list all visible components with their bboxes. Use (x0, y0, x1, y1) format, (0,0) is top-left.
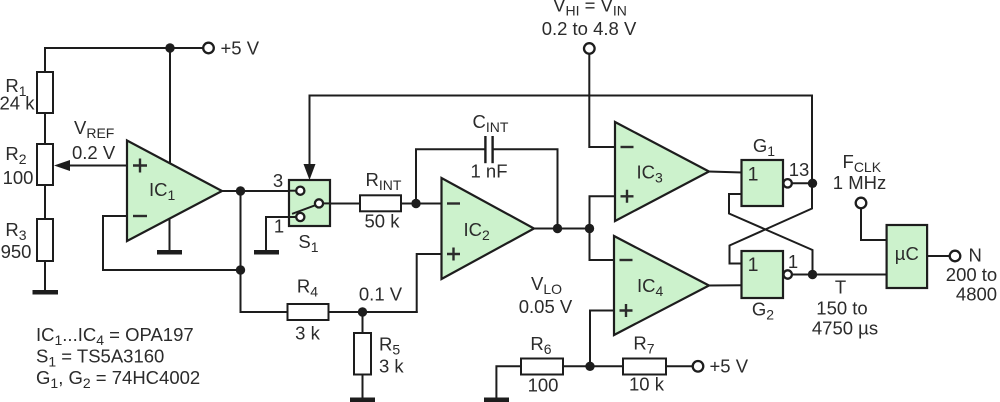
wire G1 output (792, 182, 813, 184)
svg-text:IC1...IC4 = OPA197: IC1...IC4 = OPA197 (36, 324, 194, 348)
wire divider top (44, 48, 46, 72)
svg-text:3 k: 3 k (295, 323, 320, 344)
svg-text:S1: S1 (298, 231, 318, 255)
node integrator input (411, 199, 420, 208)
wire comparator input vertical (590, 229, 615, 261)
wire IC3 output (709, 172, 742, 173)
op-amp IC2 (442, 178, 535, 279)
gate G2 (742, 251, 792, 323)
wire +5V top rail (45, 47, 202, 49)
wire R7 to +5V (666, 365, 693, 367)
wire IC2 output (534, 228, 590, 230)
svg-text:R6: R6 (530, 333, 551, 357)
gate G1 (742, 135, 792, 206)
wire G2 output (792, 274, 813, 276)
wire G1 output to G2 input (730, 183, 813, 263)
svg-text:150 to: 150 to (816, 298, 867, 319)
svg-text:1: 1 (748, 254, 759, 276)
svg-text:4800: 4800 (956, 284, 997, 305)
wire R2-R3 (44, 185, 46, 219)
wire rail to G1 output (811, 96, 813, 184)
resistor R5 (354, 312, 404, 377)
pin 1 label G2 (788, 251, 798, 272)
terminal +5V top (203, 38, 260, 59)
node G2 output (808, 270, 817, 279)
ground R5 (350, 398, 375, 402)
wire R1-R2 (44, 113, 46, 144)
svg-text:1: 1 (274, 216, 284, 237)
pin 13 label (789, 159, 810, 180)
svg-text:0.1 V: 0.1 V (359, 284, 403, 305)
wire T to uC (813, 274, 887, 276)
wire RINT to IC2 (401, 203, 442, 205)
wire CINT right (494, 149, 558, 228)
wire S1 control drop (304, 96, 316, 181)
svg-text:1: 1 (748, 164, 759, 186)
svg-text:50 k: 50 k (365, 211, 401, 232)
svg-text:0.05 V: 0.05 V (519, 296, 573, 317)
svg-text:µC: µC (895, 243, 919, 264)
node IC1 output (236, 186, 245, 195)
wire R6 to R7 (563, 365, 623, 367)
svg-text:0.2 V: 0.2 V (72, 142, 116, 163)
svg-text:100: 100 (3, 167, 34, 188)
node 0.1V (358, 284, 403, 317)
wire control rail (310, 95, 813, 97)
terminal VHI input (542, 0, 637, 54)
svg-text:R4: R4 (297, 276, 318, 300)
svg-text:3: 3 (273, 170, 283, 191)
node CINT return (553, 224, 562, 233)
svg-text:24 k: 24 k (0, 93, 35, 114)
ground S1 (254, 250, 279, 255)
svg-text:S1 = TS5A3160: S1 = TS5A3160 (36, 346, 164, 370)
wire IC1 output (222, 190, 289, 192)
node comparator input (585, 224, 594, 233)
svg-text:1 nF: 1 nF (470, 161, 507, 182)
ground R6 (484, 366, 521, 402)
svg-text:1 MHz: 1 MHz (833, 172, 886, 193)
node VLO junction (585, 362, 594, 371)
svg-text:CINT: CINT (473, 111, 509, 135)
wire IC3 noninverting input (590, 196, 616, 228)
wire CINT left (416, 149, 484, 203)
resistor R4 (288, 276, 329, 344)
node VREF wiper arrow (54, 117, 127, 171)
svg-text:VLO: VLO (531, 273, 562, 297)
wire R4 to node (329, 311, 417, 313)
terminal N output (946, 245, 997, 305)
wire R5 to ground (362, 375, 364, 398)
terminal +5V right (693, 356, 749, 377)
wire FCLK to uC (861, 209, 887, 241)
resistor RINT (360, 169, 402, 232)
wire R3 to ground (44, 261, 46, 290)
svg-text:G1: G1 (753, 135, 775, 159)
wire S1 out (330, 203, 360, 205)
pin 1 label (274, 216, 284, 237)
wire VHI to IC3 (589, 54, 615, 147)
node feedback (236, 265, 245, 274)
wire IC2 noninverting input (417, 254, 442, 312)
svg-text:1: 1 (788, 251, 798, 272)
op-amp IC1 (127, 141, 222, 242)
ground IC1 (157, 219, 182, 255)
wire IC1 supply (169, 48, 171, 164)
wire IC4 noninverting input (590, 311, 614, 367)
node junction +5V (165, 43, 174, 52)
svg-text:10 k: 10 k (629, 374, 665, 395)
svg-text:R3: R3 (5, 219, 26, 243)
resistor R3 (1, 219, 53, 262)
svg-text:R7: R7 (633, 333, 654, 357)
wire feedback to IC1 inverting input (103, 216, 241, 270)
svg-text:200 to: 200 to (946, 264, 997, 285)
wire to R4 (240, 270, 242, 312)
resistor R6 (521, 333, 563, 396)
svg-text:950: 950 (1, 241, 32, 262)
terminal FCLK (833, 151, 886, 208)
svg-text:13: 13 (789, 159, 810, 180)
resistor R7 (623, 333, 666, 395)
svg-text:N: N (969, 245, 982, 266)
svg-text:R5: R5 (379, 334, 400, 358)
resistor R2 potentiometer (3, 143, 53, 188)
svg-text:G2: G2 (752, 299, 774, 323)
svg-text:+5 V: +5 V (221, 38, 260, 59)
node VLO label (519, 273, 573, 317)
svg-text:100: 100 (528, 375, 559, 396)
wire IC4 output (709, 284, 742, 286)
capacitor CINT (470, 111, 508, 182)
node T label (812, 277, 878, 339)
wire uC output (927, 255, 950, 257)
wire feedback vertical (240, 191, 242, 270)
svg-text:0.2 to 4.8 V: 0.2 to 4.8 V (542, 18, 637, 39)
svg-text:RINT: RINT (366, 169, 402, 193)
svg-text:VREF: VREF (74, 117, 114, 141)
pin 3 label (273, 170, 283, 191)
op-amp IC3 (615, 122, 709, 221)
switch S1 (289, 180, 330, 255)
svg-text:VHI = VIN: VHI = VIN (553, 0, 627, 19)
legend text (36, 324, 200, 391)
svg-text:+5 V: +5 V (710, 356, 749, 377)
svg-text:T: T (835, 277, 846, 298)
wire G1 feedback input (729, 194, 813, 275)
svg-text:R2: R2 (5, 143, 26, 167)
wire S1 pin1 to ground (266, 217, 289, 250)
microcontroller uC (887, 225, 928, 288)
wire R4 left (241, 311, 288, 313)
resistor R1 (0, 72, 53, 114)
ground divider (33, 290, 59, 295)
svg-text:3 k: 3 k (379, 356, 404, 377)
node G1 output (808, 179, 817, 188)
op-amp IC4 (614, 236, 709, 335)
svg-text:G1, G2 = 74HC4002: G1, G2 = 74HC4002 (36, 367, 200, 391)
svg-text:4750 µs: 4750 µs (812, 318, 878, 339)
